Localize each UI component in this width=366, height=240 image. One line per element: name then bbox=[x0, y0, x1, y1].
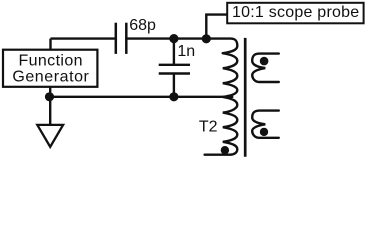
svg-text:Function: Function bbox=[18, 52, 83, 69]
transformer T2 secondary winding 1 bbox=[252, 54, 279, 82]
svg-text:68p: 68p bbox=[129, 17, 156, 34]
wire probe branch bbox=[206, 15, 227, 39]
primary polarity dot bbox=[221, 146, 229, 154]
svg-text:10:1 scope probe: 10:1 scope probe bbox=[232, 4, 360, 21]
function generator box bbox=[3, 50, 97, 87]
wire top rail to capacitor bbox=[51, 37, 115, 39]
node dot C (ground junction) bbox=[45, 92, 54, 101]
capacitor C1 68p bbox=[115, 23, 118, 54]
node dot D (1n bottom junction) bbox=[169, 92, 178, 101]
wire 1n top branch bbox=[173, 39, 175, 65]
svg-text:1n: 1n bbox=[177, 43, 195, 60]
transformer T2 secondary winding 2 bbox=[252, 111, 279, 138]
transformer T2 primary winding bbox=[205, 53, 238, 155]
secondary 1 polarity dot bbox=[260, 57, 269, 66]
ground bbox=[37, 125, 63, 147]
secondary 2 polarity dot bbox=[260, 128, 268, 136]
svg-text:Generator: Generator bbox=[12, 69, 89, 86]
node dot A (68p / 1n junction) bbox=[169, 34, 178, 43]
node dot B (probe junction) bbox=[202, 34, 211, 43]
capacitor C2 1n bbox=[159, 64, 190, 66]
wire 1n bottom branch bbox=[173, 74, 175, 97]
transformer core bbox=[244, 38, 247, 157]
scope probe box bbox=[227, 3, 363, 24]
wire from generator top bbox=[49, 39, 51, 50]
bottom rail wire bbox=[50, 96, 234, 98]
svg-text:T2: T2 bbox=[199, 119, 218, 136]
wire capacitor to transformer primary with coil entry bbox=[126, 39, 237, 54]
wire generator bottom to ground bbox=[49, 87, 51, 125]
